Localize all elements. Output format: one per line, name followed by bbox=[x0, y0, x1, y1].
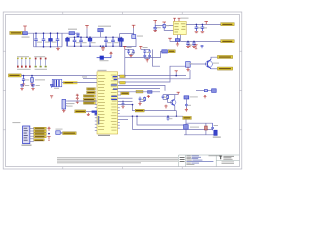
wire U2 bottom drop bbox=[177, 35, 179, 39]
ground crystal bbox=[50, 96, 53, 98]
wire main rail bbox=[22, 32, 78, 34]
ferrite bead FB2 bbox=[98, 28, 103, 31]
capacitor C11 polarized bbox=[118, 37, 122, 46]
wire clusterB link bbox=[152, 49, 160, 66]
ground C17 C18 bbox=[186, 47, 196, 48]
test point TP5 bbox=[35, 58, 37, 68]
wire LDO loop bbox=[120, 28, 134, 34]
title block frame bbox=[179, 155, 240, 167]
wire bank2 left end bbox=[66, 37, 68, 46]
connector J2 small bbox=[62, 99, 67, 109]
wire bank1 right end bbox=[61, 33, 63, 47]
junction dot VCC bbox=[23, 75, 33, 77]
text L1 bbox=[190, 96, 198, 97]
ground C14 bbox=[153, 31, 157, 32]
power flag at C12 bbox=[132, 25, 136, 28]
capacitor C32 bbox=[20, 84, 23, 87]
wire mid riser to loop bbox=[137, 116, 186, 125]
capacitor C30 bbox=[185, 103, 188, 108]
connector J1 bbox=[23, 126, 34, 144]
port VIN net label bbox=[10, 31, 23, 34]
port sense net label bbox=[183, 116, 192, 119]
capacitor C18 bbox=[192, 41, 196, 46]
capacitor C23 bbox=[148, 49, 151, 53]
dark pin mark left bbox=[92, 111, 97, 113]
wire osc1 down bbox=[125, 51, 162, 57]
MCU pin name texts left bbox=[98, 75, 106, 130]
capacitor C6 bbox=[73, 37, 77, 46]
fuse F1 bbox=[23, 32, 28, 35]
wire U3 to Q1 base bbox=[190, 63, 207, 65]
wire R8row bbox=[118, 97, 133, 99]
power flag L1 bbox=[204, 96, 207, 99]
wire bank1 left end bbox=[33, 33, 35, 47]
capacitor C34 bbox=[50, 84, 53, 87]
MCU left pin stubs bbox=[95, 104, 97, 130]
wire R4row bbox=[118, 85, 165, 90]
wire VCC to MCU bbox=[21, 75, 97, 77]
resistor R6 red bbox=[205, 126, 208, 130]
capacitor C26 (beside flags) bbox=[201, 45, 204, 48]
capacitor C17 bbox=[186, 41, 190, 46]
port VCC net label bbox=[8, 74, 21, 77]
net label J1 row1 bbox=[34, 127, 46, 129]
net label J1 row3 bbox=[34, 133, 46, 135]
power flag U2 top a bbox=[173, 18, 176, 21]
wire clusterA drop bbox=[124, 49, 126, 77]
net label row E bbox=[83, 102, 95, 104]
TI logo bbox=[219, 156, 234, 160]
capacitor C28 bbox=[162, 95, 165, 100]
ground C33 bbox=[31, 88, 34, 90]
capacitor C35 polarized bbox=[97, 55, 111, 59]
wire U2 left in bbox=[155, 23, 173, 25]
wire cluster bottom bbox=[140, 100, 145, 102]
resistor R7 bbox=[148, 91, 153, 94]
ground U3 bbox=[186, 67, 189, 71]
mod date text bbox=[209, 154, 222, 157]
opto U3 bbox=[186, 62, 191, 68]
ground below bank at x103 bbox=[101, 46, 105, 50]
text J1 partnumber bbox=[22, 145, 32, 146]
power flag VBUS bbox=[23, 26, 27, 31]
wire J2 to MCU bbox=[67, 100, 97, 102]
crystal Y1 bbox=[52, 79, 62, 86]
net label highlight mid bbox=[121, 92, 129, 95]
text above J1 bbox=[12, 122, 20, 123]
wire Q1 collector bbox=[211, 57, 217, 59]
junction J1 bbox=[48, 133, 50, 135]
power flag J1 a bbox=[47, 127, 50, 131]
text U1 partnumber bbox=[98, 135, 110, 136]
text U1 designator bbox=[98, 70, 107, 71]
wire gnd rail 2 bbox=[67, 45, 123, 47]
inductor L1 bbox=[184, 96, 189, 99]
resistor R3 bbox=[144, 97, 146, 102]
power flag C35 bbox=[109, 52, 112, 55]
wire R3row bbox=[118, 66, 190, 82]
test point TP6 bbox=[40, 58, 42, 68]
ground clusterA bbox=[129, 54, 132, 57]
capacitor C19 bbox=[22, 76, 25, 84]
MCU dark bold pins right bbox=[111, 84, 118, 100]
capacitor C10 bbox=[111, 37, 115, 46]
capacitor C7 bbox=[79, 37, 83, 46]
power flag clusterB bbox=[139, 46, 142, 49]
title text lines bbox=[186, 156, 213, 165]
ground C15 C16 bbox=[195, 32, 205, 33]
capacitor C24 bbox=[143, 54, 146, 59]
component value texts gray bbox=[17, 25, 218, 126]
test point TP2 bbox=[21, 58, 23, 68]
text note bbox=[61, 132, 63, 133]
capacitor C20 bbox=[127, 49, 130, 54]
capacitor C33 bbox=[31, 84, 34, 87]
IC U1 MCU bbox=[97, 72, 118, 134]
diode D2 bbox=[212, 89, 217, 93]
power flag row D bbox=[76, 98, 79, 101]
ground q2 cluster bbox=[164, 105, 167, 109]
transistor Q1 bbox=[206, 59, 213, 69]
MCU pin name texts right bbox=[111, 75, 117, 131]
capacitor C36 bbox=[122, 101, 125, 106]
capacitor C4 bbox=[56, 33, 60, 47]
transistor Q2 bbox=[171, 99, 176, 106]
wire 3V3 rail bbox=[67, 36, 123, 38]
capacitor C2 bbox=[42, 33, 46, 47]
wire clusterB top bbox=[141, 48, 150, 50]
wire R2row bbox=[118, 70, 190, 79]
wire R1 to U2 bbox=[164, 29, 173, 30]
net label row C bbox=[83, 95, 95, 97]
text near Q1 bbox=[212, 63, 219, 64]
text J2 label bbox=[67, 103, 75, 104]
capacitor C31 bbox=[211, 123, 214, 130]
net label row D bbox=[83, 98, 95, 100]
wire R11row long bottom bbox=[118, 116, 213, 129]
net label J1 row5 bbox=[34, 139, 44, 141]
power flag reset bbox=[87, 113, 90, 116]
power flag row C bbox=[76, 94, 79, 97]
capacitor C3 polarized bbox=[49, 33, 53, 47]
resistor R2 bbox=[31, 76, 34, 84]
wire L1 down bbox=[185, 99, 187, 103]
power flag near C16 bbox=[204, 21, 208, 24]
wire q2 links bbox=[163, 99, 172, 102]
capacitor C9 bbox=[104, 37, 108, 46]
diode D3 dark bbox=[214, 130, 217, 135]
capacitor C12 bbox=[120, 37, 124, 46]
port osc out bbox=[168, 50, 175, 53]
MCU epad vertical text bbox=[98, 116, 100, 124]
capacitor C22 bbox=[143, 49, 146, 53]
capacitor C21 bbox=[132, 49, 135, 54]
port OUT2 bbox=[217, 67, 232, 70]
net label reset bbox=[75, 110, 86, 113]
ground J2 bbox=[62, 109, 65, 113]
port OUT1 bbox=[217, 55, 232, 58]
net label text marks bbox=[9, 24, 232, 141]
capacitor C29 bbox=[167, 116, 170, 120]
wire row2 to MCU bbox=[83, 78, 97, 80]
test point TP7 bbox=[45, 58, 47, 68]
wire R9row bbox=[118, 100, 133, 102]
wire reset to MCU bbox=[86, 110, 97, 112]
MCU right pin stubs bbox=[118, 108, 120, 128]
resistor R1 bbox=[163, 23, 165, 29]
ground R2 bbox=[30, 84, 33, 86]
wire R5row bbox=[118, 88, 160, 90]
wire D1 left bbox=[170, 40, 175, 41]
capacitor C5 polarized bbox=[66, 37, 70, 46]
net highlight row6 bbox=[136, 90, 143, 93]
power flag cluster bbox=[147, 95, 150, 98]
ground C30 bbox=[185, 108, 188, 112]
text C35 value bbox=[100, 60, 109, 61]
text small c48 bbox=[82, 76, 87, 77]
junction dots branch bbox=[187, 41, 195, 43]
wire FB2 drop bbox=[86, 28, 88, 37]
capacitor C16 bbox=[201, 24, 205, 31]
ti address text bbox=[222, 162, 235, 164]
text FB1 label bbox=[68, 29, 77, 30]
sheet border frame bbox=[3, 12, 242, 169]
net label J1 row4 bbox=[34, 136, 46, 138]
wire clusterA top bbox=[125, 48, 134, 50]
capacitor C15 bbox=[195, 24, 199, 31]
ferrite bead FB1 bbox=[69, 32, 75, 35]
wire R1row bbox=[118, 75, 186, 77]
text D4 bbox=[56, 129, 63, 130]
IC U2 regulator bbox=[173, 21, 186, 34]
power flag U2 top b bbox=[178, 18, 181, 21]
wire flag drop bbox=[175, 72, 177, 75]
port 3V3 out bbox=[221, 40, 234, 43]
port ecap small1 bbox=[120, 75, 125, 78]
wire bank2 right end bbox=[121, 37, 123, 46]
wire clusterA bottom bbox=[129, 53, 134, 55]
flag mid vertical bbox=[175, 71, 178, 73]
capacitor C27 bbox=[139, 97, 142, 102]
wire U2 out bbox=[186, 23, 221, 25]
disclaimer text block bbox=[57, 157, 178, 163]
net label row A bbox=[87, 88, 96, 90]
power flag J1 b bbox=[47, 137, 50, 141]
ground C36 bbox=[121, 106, 124, 108]
junction dots U2 out bbox=[196, 24, 204, 26]
oscillator OSC1 bbox=[162, 50, 168, 53]
power flag 3V3 bbox=[85, 25, 89, 28]
ground C32 bbox=[20, 88, 23, 90]
test point TP4 bbox=[29, 58, 31, 68]
power flag clusterA bbox=[123, 46, 126, 49]
revision table small bbox=[180, 157, 185, 162]
junction dots rail2 bbox=[74, 36, 114, 47]
text C13 value bbox=[137, 36, 143, 37]
junction C36 bbox=[122, 101, 124, 103]
wire R6 stubs bbox=[205, 123, 207, 126]
net label aux bbox=[63, 132, 77, 135]
text F1 value bbox=[22, 37, 30, 38]
ground cluster bbox=[138, 101, 141, 105]
test point TP3 bbox=[25, 58, 27, 68]
capacitor C1 bbox=[34, 33, 38, 47]
wire r5-d2 row bbox=[196, 90, 203, 92]
capacitor C8 polarized bbox=[88, 37, 92, 46]
capacitor C14 bbox=[153, 25, 157, 30]
net label J1 row2 bbox=[34, 130, 46, 132]
wire gnd rail bbox=[34, 46, 63, 48]
power flag U2 in bbox=[153, 20, 157, 23]
wire R6row bbox=[118, 91, 160, 93]
wire L2 down bbox=[185, 129, 187, 135]
power flag R1 bbox=[162, 22, 166, 23]
capacitor C25 bbox=[148, 54, 151, 59]
wire osc to MCU bbox=[62, 82, 97, 84]
net label row B bbox=[87, 91, 96, 93]
net highlight mid2 bbox=[135, 109, 144, 112]
zone tick marks bbox=[3, 12, 242, 169]
junction dots top rail bbox=[35, 32, 58, 47]
diode D1 bbox=[175, 39, 179, 42]
text R2 value bbox=[35, 79, 45, 80]
wire R12row bbox=[118, 118, 128, 120]
text D3 bbox=[213, 137, 221, 138]
port ecap small2 bbox=[120, 81, 125, 84]
power flag left of D1 bbox=[168, 38, 172, 40]
wire long mid bbox=[175, 111, 177, 117]
power flag q2 bbox=[177, 92, 180, 94]
junction riser bbox=[132, 104, 138, 117]
net name highlight OSC bbox=[63, 81, 77, 84]
ground clusterB bbox=[146, 59, 149, 62]
wire clusterB bottom bbox=[145, 58, 150, 60]
test point TP1 bbox=[17, 58, 19, 68]
power flags top right pair bbox=[188, 45, 197, 49]
wire loop bbox=[186, 119, 213, 123]
text L2 value bbox=[190, 127, 199, 128]
ground D1 bbox=[176, 42, 179, 47]
wire mid horizontal bbox=[133, 115, 183, 117]
port 5V0 out bbox=[221, 23, 234, 26]
resistor R4 bbox=[167, 95, 169, 100]
text FB2 label bbox=[98, 26, 111, 27]
inductor L2 bbox=[184, 125, 189, 130]
MCU highlighted pins dark right top bbox=[113, 76, 118, 80]
capacitor C5b bridge bbox=[76, 33, 79, 37]
resistor R5 bbox=[203, 90, 208, 92]
text U2 name bbox=[181, 18, 189, 19]
ground C19 bbox=[22, 84, 25, 86]
wire R10row bend down bbox=[118, 105, 177, 111]
ground GND1 bbox=[56, 47, 60, 51]
wire R7row bbox=[118, 94, 121, 96]
LED D4 bbox=[56, 131, 60, 135]
power flag row E bbox=[76, 101, 79, 104]
junction bank gnd bbox=[102, 45, 104, 47]
capacitor C13 boxed bbox=[132, 34, 136, 39]
wire Q1 emitter bbox=[211, 68, 217, 70]
